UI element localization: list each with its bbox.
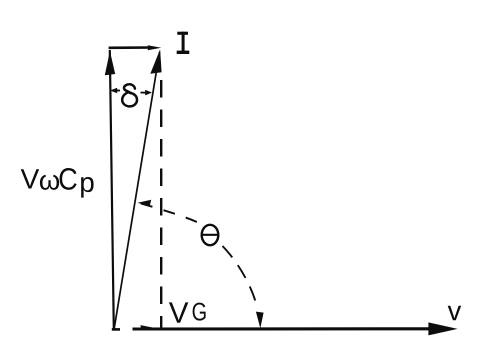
label v	[448, 306, 461, 320]
axis / vector v (horizontal)	[133, 322, 458, 335]
loss angle delta label	[122, 84, 137, 106]
label VG	[169, 302, 206, 322]
delta right arrow	[141, 90, 153, 96]
wire: origin foot serif	[112, 328, 120, 331]
vector VwCp (vertical capacitive current vector)	[105, 50, 115, 329]
label I	[177, 32, 190, 54]
arc arrowhead at I line	[138, 200, 152, 207]
label VwCp	[21, 168, 94, 198]
wire: top horizontal segment from VwCp tip to I tip	[109, 45, 162, 50]
arc arrowhead at baseline	[256, 312, 264, 329]
dashed arc for angle theta (upper segment)	[138, 203, 197, 222]
delta left arrow	[110, 88, 120, 94]
vector I (total current, slightly tilted)	[114, 49, 161, 328]
theta glyph	[202, 225, 219, 245]
small VG arrowhead on axis	[140, 325, 153, 330]
dashed vertical projection line from I tip	[160, 80, 162, 330]
dashed arc for angle theta (lower segment)	[223, 246, 257, 305]
